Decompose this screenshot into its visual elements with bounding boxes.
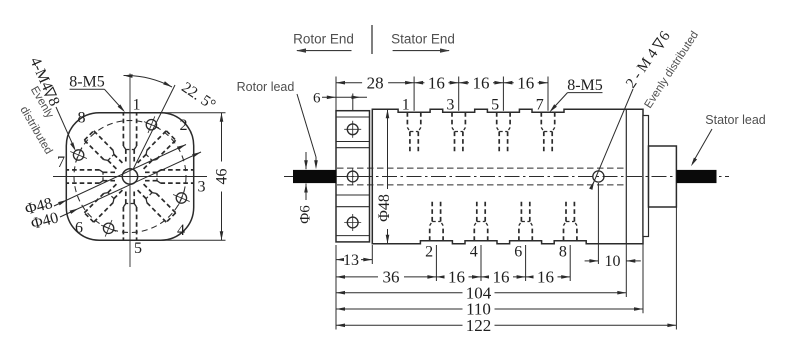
ext line 2-M4 hole bbox=[597, 183, 599, 264]
bottom ring tapped hole (dashed) bbox=[429, 226, 431, 241]
slip ring body outline bbox=[372, 109, 643, 243]
horizontal centerline bbox=[53, 176, 207, 178]
rotor lead leader bbox=[297, 94, 316, 157]
flange bolt hole with center marks bbox=[347, 217, 358, 228]
svg-text:6: 6 bbox=[75, 220, 83, 237]
stator hole 2-M4 bbox=[593, 171, 604, 182]
dim 104 bbox=[336, 292, 626, 294]
dim phi6 arrows bbox=[305, 152, 307, 169]
flange bolt hole with center marks bbox=[347, 124, 358, 135]
rotor flange outline bbox=[336, 111, 370, 242]
bottom ring tapped hole (dashed) bbox=[473, 226, 475, 241]
dim 16 d bbox=[436, 276, 481, 278]
top ring tapped hole (dashed) bbox=[451, 112, 453, 127]
svg-text:5: 5 bbox=[134, 240, 142, 257]
dim phi6 text bbox=[298, 205, 314, 224]
dim phi48 leader (left view) bbox=[54, 145, 186, 207]
ring 2 extension line bbox=[435, 245, 437, 281]
dim 110 bbox=[336, 308, 643, 310]
ext line feature bottom bbox=[625, 244, 627, 297]
8-M5 leader (right) bbox=[551, 93, 568, 111]
svg-text:46: 46 bbox=[214, 169, 231, 185]
dim 16 c bbox=[503, 82, 548, 84]
flange bolt hole with center marks bbox=[347, 171, 358, 182]
dim phi40 leader (left view) bbox=[60, 152, 201, 217]
dim 46 text bbox=[215, 162, 228, 192]
svg-text:16: 16 bbox=[517, 73, 534, 92]
svg-text:1: 1 bbox=[402, 97, 410, 114]
stator end direction arrow bbox=[393, 50, 449, 52]
svg-text:8-M5: 8-M5 bbox=[69, 74, 105, 91]
M4 mounting hole bbox=[73, 150, 83, 160]
dim 46 line bbox=[221, 113, 223, 240]
svg-text:3: 3 bbox=[446, 97, 454, 114]
center shaft hole bbox=[122, 169, 137, 184]
ring 5 extension line bbox=[502, 77, 504, 111]
ext line 46 bottom bbox=[162, 239, 226, 241]
M4 mounting hole bbox=[103, 223, 113, 233]
flange segment line bbox=[336, 194, 370, 196]
svg-text:8-M5: 8-M5 bbox=[567, 77, 603, 94]
rotor lead wire bbox=[293, 170, 336, 183]
flange segment line bbox=[336, 235, 370, 237]
ext line flange-left bottom bbox=[335, 245, 337, 330]
dim 10 bbox=[585, 260, 599, 262]
svg-text:8: 8 bbox=[559, 243, 567, 260]
bottom ring tapped hole (dashed) bbox=[518, 226, 520, 241]
svg-text:28: 28 bbox=[367, 73, 384, 92]
stator end cap bbox=[649, 146, 677, 207]
dim 122 bbox=[336, 324, 676, 326]
top ring tapped hole (dashed) bbox=[406, 112, 408, 127]
M4 mounting hole bbox=[146, 120, 156, 130]
svg-text:7: 7 bbox=[536, 97, 544, 114]
radial slot 2 bbox=[161, 169, 194, 171]
svg-text:Rotor End: Rotor End bbox=[293, 32, 354, 47]
flange segment line bbox=[336, 141, 370, 143]
top ring tapped hole (dashed) bbox=[540, 112, 542, 127]
bore dashed line upper bbox=[337, 167, 626, 169]
bolt circle phi40 (dashed) bbox=[74, 121, 186, 233]
axis centerline bbox=[284, 176, 729, 178]
ext line body-left bottom bbox=[371, 245, 373, 264]
flange segment line bbox=[336, 206, 370, 208]
flange segment line bbox=[336, 147, 370, 149]
svg-text:16: 16 bbox=[537, 268, 554, 287]
svg-text:6: 6 bbox=[514, 243, 522, 260]
dim 13 bbox=[336, 259, 372, 261]
svg-text:7: 7 bbox=[57, 154, 65, 171]
vertical centerline bbox=[129, 74, 131, 268]
svg-text:13: 13 bbox=[343, 252, 359, 269]
22.5deg arc bbox=[124, 75, 173, 87]
svg-text:2: 2 bbox=[180, 117, 188, 134]
svg-text:16: 16 bbox=[428, 73, 445, 92]
svg-text:6: 6 bbox=[313, 90, 321, 106]
ext line 6-dim bbox=[352, 94, 354, 111]
ext line 46 top bbox=[160, 112, 226, 114]
svg-text:1: 1 bbox=[133, 97, 141, 114]
ring 8 extension line bbox=[569, 245, 571, 281]
radial slot 1 bbox=[147, 131, 166, 151]
svg-text:4: 4 bbox=[470, 243, 478, 260]
label 4-M4 depth 8 bbox=[26, 55, 63, 109]
bottom ring tapped hole (dashed) bbox=[563, 226, 565, 241]
bore dashed line lower bbox=[337, 184, 626, 186]
ring 7 extension line bbox=[547, 77, 549, 111]
radial slot 3 bbox=[156, 193, 176, 212]
stator lead wire bbox=[676, 170, 716, 183]
dim 6 bbox=[322, 96, 367, 98]
top ring tapped hole (dashed) bbox=[496, 112, 498, 127]
svg-text:10: 10 bbox=[605, 253, 621, 270]
dim 28 bbox=[336, 82, 414, 84]
label 2-M4 depth 6 bbox=[623, 28, 674, 91]
svg-text:16: 16 bbox=[493, 268, 510, 287]
radial slot 0 bbox=[122, 113, 124, 146]
ring 1 extension line bbox=[413, 77, 415, 111]
svg-text:16: 16 bbox=[448, 268, 465, 287]
svg-text:36: 36 bbox=[383, 268, 400, 287]
dim 16 f bbox=[526, 276, 571, 278]
svg-text:Rotor lead: Rotor lead bbox=[237, 80, 295, 94]
stator lead leader bbox=[693, 129, 713, 163]
svg-text:3: 3 bbox=[198, 179, 206, 196]
stator mid section bbox=[643, 116, 649, 237]
svg-text:Φ6: Φ6 bbox=[298, 205, 314, 224]
flange segment line bbox=[336, 116, 370, 118]
2-M4 leader bbox=[591, 89, 633, 188]
radial slot 6 bbox=[66, 182, 99, 184]
ring 6 extension line bbox=[525, 245, 527, 281]
dim 16 e bbox=[481, 276, 526, 278]
svg-text:16: 16 bbox=[473, 73, 490, 92]
dim 16 a bbox=[414, 82, 459, 84]
svg-text:5: 5 bbox=[491, 97, 499, 114]
radial slot 5 bbox=[94, 203, 113, 223]
svg-text:Stator lead: Stator lead bbox=[705, 113, 766, 127]
svg-text:8: 8 bbox=[78, 110, 86, 127]
rotor/stator separator line bbox=[371, 25, 373, 54]
ring 3 extension line bbox=[458, 77, 460, 111]
dim phi48 line bbox=[387, 109, 389, 243]
dim phi48 text bbox=[378, 189, 392, 229]
ext line body-right bottom bbox=[642, 244, 644, 314]
svg-text:Stator End: Stator End bbox=[391, 32, 455, 47]
8-M5 leader (left) bbox=[105, 89, 124, 110]
rotor end direction arrow bbox=[297, 50, 352, 52]
radial slot 4 bbox=[136, 207, 138, 240]
svg-text:122: 122 bbox=[466, 316, 492, 335]
ext line cap-right bottom bbox=[675, 208, 677, 330]
ring 4 extension line bbox=[480, 245, 482, 281]
4-M4 leader bbox=[56, 107, 75, 149]
body feature line bbox=[625, 109, 627, 243]
dim 16 b bbox=[459, 82, 504, 84]
svg-text:4: 4 bbox=[177, 222, 185, 239]
M4 mounting hole bbox=[176, 193, 186, 203]
ext line flange-left top bbox=[335, 77, 337, 111]
svg-text:Φ48: Φ48 bbox=[376, 194, 393, 222]
svg-text:2: 2 bbox=[425, 243, 433, 260]
flange face outline (rounded square) bbox=[66, 113, 193, 240]
radial slot 7 bbox=[84, 140, 104, 159]
22.5deg ray bbox=[133, 85, 175, 170]
dim 36 bbox=[336, 276, 436, 278]
